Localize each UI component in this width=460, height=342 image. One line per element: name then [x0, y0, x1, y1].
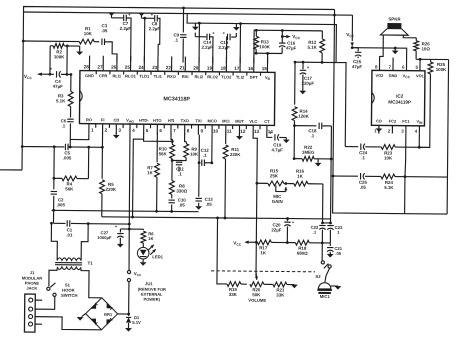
svg-text:RLO1: RLO1	[125, 73, 136, 78]
capacitor C4 47uF	[55, 71, 57, 77]
capacitor C25 47uF	[352, 48, 358, 52]
ground over C7	[108, 12, 115, 16]
svg-text:TLI1: TLI1	[154, 74, 163, 79]
svg-text:50K: 50K	[252, 292, 261, 297]
resistor R4 56K	[54, 177, 62, 179]
svg-text:5.1V: 5.1V	[132, 320, 141, 325]
wire pin4 VIN down	[418, 134, 420, 147]
capacitor C9 .1 on pin 21 drop	[180, 34, 186, 36]
ground under D1	[125, 328, 132, 332]
svg-text:15: 15	[262, 66, 268, 71]
svg-text:13: 13	[254, 129, 260, 134]
svg-text:T1: T1	[88, 261, 94, 266]
svg-text:CT: CT	[264, 119, 270, 124]
wire nested bus 3 around C14/C15 cluster	[187, 14, 337, 63]
svg-text:28: 28	[84, 64, 90, 69]
wire BR1 to D1 rail	[118, 313, 129, 315]
resistor R5 220K	[100, 180, 105, 194]
ground under C21	[327, 254, 334, 258]
wire pin 16 DPT stub	[253, 62, 255, 64]
wire left edge tap	[0, 169, 22, 171]
wire pin 1 drop jog to C6 chain	[70, 133, 89, 139]
svg-text:TLO2: TLO2	[221, 74, 232, 79]
ground above pin 7 GND	[394, 48, 396, 50]
wire R25 bottom to VIN	[418, 82, 431, 148]
capacitor C2 .005	[53, 177, 56, 180]
wire pin5 HTD jog drop	[133, 139, 144, 217]
svg-text:DPT: DPT	[250, 75, 259, 80]
svg-text:.005: .005	[56, 202, 65, 207]
svg-text:56K: 56K	[159, 151, 168, 156]
svg-text:27: 27	[97, 65, 103, 70]
wire T1 secondary to S1 and bridge	[49, 268, 57, 286]
capacitor C17 220uF	[302, 62, 304, 69]
ground above pin 28	[76, 52, 83, 56]
wire speaker to IC2 pins	[380, 35, 384, 63]
node bottom rail left	[52, 209, 55, 212]
svg-text:.1: .1	[178, 172, 182, 177]
svg-text:.05: .05	[206, 202, 213, 207]
svg-text:GND: GND	[85, 73, 94, 78]
wire rail upper (analog ground)	[52, 210, 199, 211]
capacitor C7 2.2uF	[123, 15, 125, 21]
svg-text:20: 20	[193, 65, 199, 70]
svg-text:CD: CD	[113, 117, 119, 122]
svg-text:VLC: VLC	[249, 119, 257, 124]
svg-text:5.1K: 5.1K	[308, 45, 318, 50]
svg-text:1MEG: 1MEG	[302, 150, 315, 155]
resistor R11 220K	[225, 134, 227, 144]
svg-text:10K: 10K	[84, 31, 93, 36]
capacitor C24 .1	[360, 144, 362, 150]
op-amp U2 IC2 MC34119P audio amp body	[371, 70, 425, 126]
svg-text:S2: S2	[315, 274, 321, 279]
svg-text:IC2: IC2	[396, 94, 404, 99]
svg-text:*: *	[50, 67, 52, 73]
svg-text:RO: RO	[86, 117, 92, 122]
capacitor C11 .1	[171, 158, 173, 160]
svg-text:+: +	[307, 65, 310, 70]
capacitor C21 .05	[322, 242, 330, 244]
resistor R7 1K	[156, 133, 158, 162]
svg-text:BR1: BR1	[104, 312, 113, 317]
svg-text:10K: 10K	[190, 152, 199, 157]
dashed gang line	[211, 270, 315, 273]
svg-text:CD: CD	[376, 118, 382, 123]
ground left of BR1	[82, 314, 86, 317]
wire R9 bottom bend	[179, 158, 186, 161]
svg-text:10: 10	[213, 129, 219, 134]
ground right of MIC1	[331, 285, 338, 287]
svg-text:120K: 120K	[298, 114, 309, 119]
svg-text:25K: 25K	[270, 173, 279, 178]
capacitor C8 2.2uF	[154, 15, 156, 21]
capacitor C23 1	[327, 225, 333, 227]
svg-text:220K: 220K	[106, 187, 117, 192]
wire row C24 R23	[345, 146, 358, 148]
capacitor C3 .05	[101, 39, 103, 45]
svg-text:HTI: HTI	[168, 118, 175, 123]
svg-text:5.1K: 5.1K	[384, 185, 394, 190]
resistor R10 56K	[144, 133, 173, 141]
node VIN junction	[418, 146, 421, 149]
wire local node row	[120, 228, 143, 230]
svg-text:CPR: CPR	[99, 73, 108, 78]
svg-text:.05: .05	[179, 203, 186, 208]
svg-text:SPKR: SPKR	[388, 17, 401, 22]
svg-text:1K: 1K	[297, 174, 303, 179]
svg-text:100K: 100K	[259, 44, 270, 49]
svg-text:47µF: 47µF	[352, 64, 362, 69]
svg-text:56K: 56K	[65, 186, 74, 191]
svg-text:47µF: 47µF	[53, 84, 63, 89]
ground under C27	[117, 244, 124, 248]
svg-text:HTD-: HTD-	[139, 118, 149, 123]
capacitor C26 .05	[360, 173, 362, 179]
wire pin 20 stub up	[198, 23, 200, 62]
op-amp U2 top pins 8-5 stubs, numbers and labels	[378, 62, 380, 70]
svg-text:22: 22	[166, 65, 172, 70]
wire pin 3 FC1 drop to bottom loop	[405, 134, 406, 214]
svg-text:12: 12	[240, 129, 246, 134]
svg-text:5.1K: 5.1K	[56, 98, 66, 103]
svg-text:LED1: LED1	[152, 254, 163, 259]
svg-text:26: 26	[111, 65, 117, 70]
ground under IC2 pin 1	[378, 126, 380, 133]
wire C9 tee drop	[182, 8, 184, 32]
jumper JU1	[127, 270, 130, 273]
svg-text:100K: 100K	[54, 54, 65, 59]
wire Vcc node to pin 6	[352, 48, 407, 63]
ground over C8	[138, 13, 145, 17]
svg-text:MUT: MUT	[235, 119, 244, 124]
svg-text:.05: .05	[360, 185, 367, 190]
resistor R13 100K	[255, 30, 257, 36]
resistor R20 50K volume pot	[250, 282, 264, 287]
wire pin 22 RXO long drop to R14	[294, 62, 296, 104]
LED1	[137, 247, 149, 259]
svg-text:VO2: VO2	[376, 73, 385, 78]
capacitor C15 2.2uF	[226, 34, 228, 40]
capacitor C5 .005	[54, 146, 64, 148]
svg-text:J1: J1	[30, 270, 35, 275]
svg-text:220µF: 220µF	[302, 81, 315, 86]
svg-text:.1: .1	[174, 37, 178, 42]
ground right of C19	[285, 138, 287, 140]
capacitor C27 1000uF	[119, 229, 121, 233]
svg-text:VO1: VO1	[416, 73, 425, 78]
svg-text:TLD1: TLD1	[139, 74, 150, 79]
wire bottom rail	[102, 217, 331, 219]
ground under pin 12 MUT	[238, 134, 240, 136]
resistor R3 5.1K	[70, 74, 72, 91]
svg-text:2.2µF: 2.2µF	[120, 26, 132, 31]
wire pin4 Vag drop straight down to C27 node	[129, 134, 130, 229]
wire R5 to pin 2	[101, 133, 103, 179]
svg-text:MC34119P: MC34119P	[388, 100, 411, 105]
capacitor C6 .1	[70, 106, 72, 117]
switch S2	[321, 243, 323, 260]
wire left of rows	[335, 63, 346, 147]
svg-text:RLI1: RLI1	[112, 73, 121, 78]
resistor R12 5.1K	[321, 31, 323, 39]
svg-text:RLI2: RLI2	[195, 74, 204, 79]
capacitor C19 4.7uF	[267, 134, 273, 137]
resistor R2 100K	[50, 45, 53, 47]
zener diode D1 5.1V	[127, 313, 130, 316]
svg-text:FI: FI	[101, 117, 105, 122]
svg-text:.05: .05	[335, 251, 342, 256]
wire loop top to ground above pin 28	[79, 46, 81, 51]
svg-text:22µF: 22µF	[271, 227, 281, 232]
svg-text:18: 18	[221, 66, 227, 71]
wire mic row vertical to C22	[322, 184, 324, 223]
svg-text:+: +	[151, 12, 154, 17]
wire R22 row	[293, 157, 296, 160]
wire R2 loop	[49, 46, 51, 74]
op-amp U1 top pins 28-15 stubs, numbers and labels	[88, 56, 90, 71]
capacitor C12 .1	[198, 135, 200, 163]
svg-text:2.2µF: 2.2µF	[218, 45, 230, 50]
svg-text:MCI: MCI	[222, 119, 229, 124]
svg-text:.05: .05	[101, 28, 108, 33]
svg-text:HTO: HTO	[153, 118, 161, 123]
wire pin 14 CT drop	[266, 157, 268, 159]
svg-text:SWITCH: SWITCH	[61, 293, 78, 298]
svg-text:RLO2: RLO2	[207, 74, 218, 79]
svg-text:.005: .005	[63, 155, 72, 160]
svg-text:11: 11	[227, 129, 232, 134]
wire R26 bottom to VO1 and R25	[416, 58, 430, 60]
switch S1 hook	[47, 287, 50, 290]
svg-text:.1: .1	[62, 123, 66, 128]
resistor R9 10K	[185, 134, 187, 142]
svg-text:.1: .1	[310, 133, 314, 138]
svg-text:4.7µF: 4.7µF	[272, 147, 284, 152]
svg-text:.01: .01	[66, 232, 73, 237]
wire V+ pin15 row A	[254, 52, 282, 54]
resistor R21 33K	[269, 283, 273, 285]
svg-text:2.2µF: 2.2µF	[201, 45, 213, 50]
capacitor C22 .1	[319, 224, 325, 226]
svg-text:RXO: RXO	[167, 74, 176, 79]
capacitor C16 47uF	[279, 42, 285, 44]
capacitor C13 .05	[198, 163, 200, 197]
svg-text:1000µF: 1000µF	[97, 235, 112, 240]
capacitor C14 2.2uF	[206, 34, 208, 40]
wire row C26 R24	[337, 175, 358, 177]
svg-text:TXI: TXI	[195, 118, 201, 123]
svg-text:21: 21	[180, 65, 186, 70]
resistor R6 1K	[142, 228, 144, 231]
wires J1 to switch	[35, 299, 42, 301]
ground after R21	[291, 285, 298, 289]
svg-text:JACK: JACK	[26, 286, 37, 291]
svg-text:MCO: MCO	[207, 118, 216, 123]
svg-text:MC34118P: MC34118P	[163, 96, 190, 102]
resistor R16 1K	[288, 183, 294, 185]
svg-text:17: 17	[234, 66, 240, 71]
ground under C13	[195, 206, 202, 210]
svg-text:330Ω: 330Ω	[176, 188, 187, 193]
svg-text:2.2µF: 2.2µF	[149, 26, 161, 31]
capacitor C20 22uF	[286, 217, 289, 220]
connector J1 jack body	[24, 294, 35, 332]
resistor R14 120K	[292, 107, 297, 121]
svg-text:1K: 1K	[147, 170, 153, 175]
ground after R22	[317, 159, 319, 163]
svg-text:MIC1: MIC1	[320, 294, 331, 299]
resistor R22 1MEG	[294, 158, 302, 160]
op-amp U1 MC34118P speakerphone IC body	[79, 71, 274, 126]
svg-text:1K: 1K	[260, 250, 266, 255]
ground under pin 3	[115, 133, 117, 135]
svg-text:GND: GND	[389, 73, 398, 78]
svg-text:+: +	[128, 12, 131, 17]
svg-text:100K: 100K	[436, 67, 447, 72]
wire pin 17 stub up to bus	[239, 24, 241, 63]
svg-text:1K: 1K	[148, 236, 153, 241]
svg-text:33K: 33K	[276, 292, 285, 297]
wire second top bus	[24, 12, 353, 15]
resistor R15 25K mic gain pot	[257, 182, 268, 184]
resistor R1 10K	[23, 40, 79, 43]
svg-text:10Ω: 10Ω	[421, 46, 430, 51]
svg-text:19: 19	[207, 66, 213, 71]
resistor R26 10ohm	[415, 38, 417, 41]
svg-text:TLI2: TLI2	[236, 75, 245, 80]
resistor R18 680	[287, 242, 295, 244]
ground under LED1	[142, 259, 144, 262]
svg-text:POWER): POWER)	[144, 297, 161, 302]
capacitor C18 .1 upper	[293, 124, 296, 127]
op-amp U2 bottom pins 1-4 stubs, numbers and labels	[378, 125, 380, 133]
wire C5 node down to R4	[53, 147, 55, 178]
wire C22/C23 tops	[321, 221, 324, 224]
svg-text:16: 16	[248, 66, 254, 71]
resistor R23 10K	[377, 146, 381, 148]
svg-text:FC2: FC2	[389, 119, 397, 124]
svg-text:.1: .1	[203, 153, 207, 158]
svg-text:FC1: FC1	[402, 119, 410, 124]
microphone MIC1	[325, 268, 330, 282]
resistor R25 100K	[430, 59, 432, 61]
wire C1 row to JU1 vertical	[88, 223, 129, 225]
svg-text:10K: 10K	[384, 155, 393, 160]
bridge rectifier BR1	[85, 298, 117, 330]
svg-text:VOLUME: VOLUME	[248, 298, 266, 303]
wire row B (RXI net)	[295, 61, 336, 63]
wire top-left outer loop	[22, 7, 334, 150]
wire far right down	[333, 9, 449, 214]
capacitor C10 .05	[169, 199, 175, 201]
capacitor C1 .01	[53, 222, 65, 224]
svg-text:220K: 220K	[230, 152, 241, 157]
op-amp U1 bottom pins 1-14 stubs, numbers and labels	[88, 124, 90, 134]
wire right tall loop	[447, 60, 448, 214]
wire C1/C2 rail down to T1	[51, 223, 57, 260]
wire C18 right side down	[330, 126, 333, 219]
svg-text:25: 25	[125, 65, 131, 70]
resistor R24 5.1K	[377, 175, 381, 177]
svg-text:TXO: TXO	[181, 118, 189, 123]
ground over C15	[235, 24, 237, 27]
power Vcc arrow top middle	[281, 30, 283, 36]
ground below C17	[299, 91, 306, 95]
transformer T1	[57, 258, 81, 261]
svg-text:RXI: RXI	[182, 74, 189, 79]
resistor R8 330	[171, 160, 173, 180]
resistor R17 1K	[257, 240, 271, 245]
svg-text:33K: 33K	[229, 292, 238, 297]
resistor R19 33K	[223, 283, 227, 285]
wire volume row	[217, 218, 224, 284]
svg-text:24: 24	[139, 65, 145, 70]
svg-text:680Ω: 680Ω	[297, 251, 308, 256]
wire cluster box around R13 C16	[254, 30, 323, 64]
svg-text:.1: .1	[361, 155, 365, 160]
svg-text:47µF: 47µF	[286, 46, 296, 51]
wire pin13 VLC drop to volume	[252, 134, 258, 276]
svg-text:23: 23	[152, 65, 158, 70]
ground over C14	[194, 23, 196, 26]
svg-text:GAIN: GAIN	[272, 199, 283, 204]
svg-text:JU1: JU1	[145, 281, 153, 286]
